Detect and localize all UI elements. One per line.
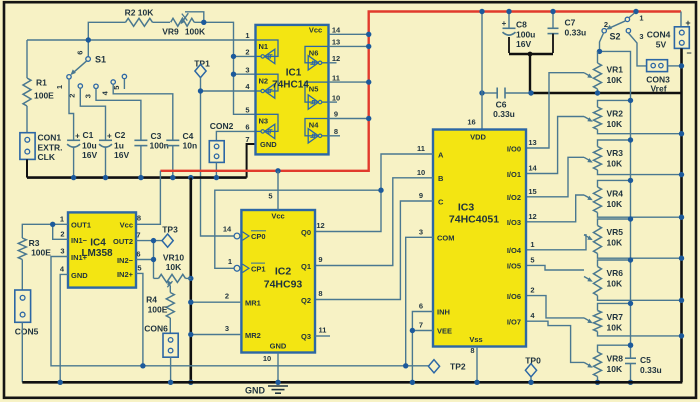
- wire IC1 pin 13 to +5V: [329, 45, 369, 47]
- junction VDD on red: [479, 9, 484, 14]
- svg-text:VR4: VR4: [607, 189, 624, 199]
- resistor R3: [18, 238, 26, 260]
- wire IC1 pin 12 stub: [329, 62, 337, 64]
- svg-text:15: 15: [528, 187, 536, 196]
- svg-text:Q3: Q3: [301, 332, 311, 341]
- capacitor C7: [552, 12, 554, 29]
- junction VR8 top on +V rail: [628, 343, 633, 348]
- VR4 wiper arrow: [584, 195, 590, 198]
- potentiometer VR2: [598, 100, 631, 107]
- wire IC1 pin 11 to +5V: [329, 81, 369, 83]
- svg-text:B: B: [438, 174, 444, 183]
- wire IC2 MR1 to gnd drop: [191, 301, 242, 303]
- connector CON5: [15, 290, 31, 322]
- test point TP2: [428, 360, 439, 373]
- inverter N1: [256, 40, 279, 56]
- svg-text:C3: C3: [151, 131, 162, 141]
- wire C1 to ground bus: [73, 147, 75, 178]
- node junction pin3: [231, 72, 236, 77]
- svg-text:IC1: IC1: [286, 68, 302, 79]
- svg-text:16V: 16V: [114, 150, 129, 160]
- svg-text:10K: 10K: [607, 323, 623, 333]
- svg-text:I/O4: I/O4: [507, 246, 522, 255]
- svg-text:6: 6: [419, 302, 423, 311]
- svg-text:Vref: Vref: [650, 84, 666, 94]
- junction MR1 on drop: [188, 300, 193, 305]
- svg-text:5: 5: [268, 192, 272, 201]
- svg-text:+: +: [502, 19, 507, 28]
- junction VR7 bottom on gnd rail: [679, 333, 684, 338]
- svg-text:74HC14: 74HC14: [272, 80, 309, 91]
- VR7 wiper arrow: [584, 318, 590, 321]
- svg-text:N4: N4: [309, 121, 319, 130]
- wire IC1 pin 8 stub: [329, 135, 341, 137]
- counter IC2 74HC93 body: [241, 210, 315, 353]
- wire IC1 pin 6 to CON2: [216, 131, 255, 140]
- wire IC3 I/O2 to VR3 wiper: [526, 157, 584, 197]
- junction pin11: [366, 79, 371, 84]
- svg-text:10K: 10K: [607, 199, 623, 209]
- VR1 wiper arrow: [584, 73, 590, 76]
- svg-text:MR1: MR1: [245, 299, 261, 308]
- svg-text:IC3: IC3: [458, 202, 475, 214]
- wire IC4 GND to ground bus: [60, 274, 68, 382]
- junction IC4 gnd on bus: [58, 380, 63, 385]
- junction INH/VEE: [410, 328, 415, 333]
- wire S1 contact 3 to C3: [96, 89, 141, 141]
- svg-text:IN2+: IN2+: [117, 270, 134, 279]
- junction C5/VR8 top on rail: [628, 343, 633, 348]
- svg-text:GND: GND: [245, 386, 266, 396]
- svg-text:GND: GND: [270, 342, 287, 351]
- svg-text:N3: N3: [259, 117, 269, 126]
- svg-text:+: +: [685, 18, 690, 28]
- svg-text:8: 8: [470, 346, 474, 355]
- svg-text:N5: N5: [309, 84, 319, 93]
- junction pin13: [366, 44, 371, 49]
- wire R4 to CON6: [169, 318, 171, 333]
- svg-text:7: 7: [419, 321, 423, 330]
- svg-text:10: 10: [332, 93, 340, 102]
- junction VR3 bottom on gnd rail: [679, 172, 684, 177]
- inverter N4: [305, 119, 328, 136]
- svg-text:1: 1: [228, 257, 232, 266]
- junction pin9: [366, 116, 371, 121]
- wire C2 to ground bus: [105, 147, 107, 178]
- svg-text:11: 11: [319, 326, 327, 335]
- S1 contact 3: [94, 84, 98, 88]
- svg-text:6: 6: [76, 51, 85, 55]
- wire IC2 GND to ground bus: [277, 353, 279, 383]
- svg-text:16V: 16V: [516, 39, 531, 49]
- junction C1-gnd: [71, 175, 76, 180]
- wire IC3 VEE to ground bus: [412, 330, 433, 332]
- svg-text:13: 13: [332, 38, 340, 47]
- svg-text:GND: GND: [71, 271, 88, 280]
- svg-text:Q2: Q2: [301, 296, 311, 305]
- svg-text:1: 1: [245, 31, 249, 40]
- svg-text:TP0: TP0: [525, 355, 541, 365]
- S1 contact 5: [122, 74, 126, 78]
- junction C6 right on black: [528, 90, 533, 95]
- svg-text:R2 10K: R2 10K: [125, 8, 155, 18]
- svg-text:1: 1: [55, 85, 64, 89]
- capacitor C8: [508, 12, 510, 29]
- potentiometer VR7: [598, 303, 631, 310]
- junction drop on bus: [188, 380, 193, 385]
- junction pin4/TP1: [198, 88, 203, 93]
- svg-text:C8: C8: [516, 20, 527, 30]
- svg-text:100E: 100E: [148, 305, 168, 315]
- S1 contact 4: [111, 80, 115, 84]
- svg-text:CON2: CON2: [210, 121, 234, 131]
- potentiometer VR8: [598, 345, 631, 352]
- black gnd drop wire (middle): [190, 178, 193, 383]
- svg-text:Vcc: Vcc: [309, 26, 322, 35]
- junction COM on line: [403, 363, 408, 368]
- svg-text:5: 5: [245, 106, 249, 115]
- svg-text:11: 11: [332, 73, 340, 82]
- junction OUT2/TP3: [151, 238, 156, 243]
- svg-text:MR2: MR2: [245, 331, 261, 340]
- inverter N2: [256, 74, 279, 91]
- wire IC3 B from IC2 Q1: [315, 178, 433, 266]
- wire IC1 pin 3: [234, 73, 256, 75]
- VR9 wiper bracket: [185, 12, 204, 22]
- junction VR7 top on +V rail: [628, 301, 633, 306]
- svg-text:12: 12: [316, 221, 324, 230]
- svg-text:C2: C2: [115, 130, 126, 140]
- wire IC2 Q3 stub: [315, 335, 330, 337]
- svg-text:IN1−: IN1−: [71, 236, 88, 245]
- junction OUT1/IN1-: [50, 222, 55, 227]
- svg-text:100n: 100n: [150, 141, 169, 151]
- svg-text:8: 8: [137, 214, 141, 223]
- connector CON1: [20, 133, 35, 160]
- S1 contact 2: [78, 84, 82, 88]
- wire IC3 Vss to ground bus: [476, 347, 478, 383]
- svg-text:3: 3: [419, 227, 423, 236]
- junction C3-gnd: [138, 175, 143, 180]
- wire IC3 I/O7 to VR8 wiper: [526, 321, 584, 362]
- wire IC4 IN1+ to buffer input line: [51, 257, 428, 366]
- svg-text:TP3: TP3: [162, 225, 178, 235]
- svg-text:S2: S2: [609, 32, 620, 42]
- junction gnd drop: [188, 175, 193, 180]
- switch S1: [87, 40, 89, 57]
- switch S2: [633, 9, 638, 14]
- wire TP1 down to IC2 CP0: [201, 78, 235, 236]
- wire CON2 to ground bus: [215, 162, 217, 177]
- wire IC4 IN2-: [136, 259, 154, 261]
- wire S2 contact 2 down to VR1 top: [600, 33, 604, 52]
- junction VR1 bottom on black: [595, 90, 600, 95]
- svg-text:1u: 1u: [114, 140, 124, 150]
- svg-text:10: 10: [263, 354, 271, 363]
- svg-text:N2: N2: [259, 76, 269, 85]
- svg-text:10K: 10K: [607, 159, 623, 169]
- wire S1 contact 5 stub: [123, 79, 125, 89]
- svg-text:5V: 5V: [656, 40, 667, 50]
- svg-text:10K: 10K: [607, 364, 623, 374]
- junction CON6 on bus: [168, 380, 173, 385]
- wire IC2 MR2 to gnd drop: [191, 334, 242, 336]
- node junction R2/VR9 bracket: [201, 20, 206, 25]
- node A junction dot at S1 pole: [86, 37, 91, 42]
- junction S2-VR1: [597, 49, 602, 54]
- svg-text:A: A: [438, 150, 444, 159]
- wire IC3 I/O0 to VR1 wiper: [526, 73, 584, 148]
- VR3 wiper arrow: [584, 157, 590, 160]
- svg-text:10u: 10u: [82, 140, 97, 150]
- svg-text:C7: C7: [565, 18, 576, 28]
- svg-text:CON6: CON6: [144, 324, 168, 334]
- junction VR5 bottom on gnd rail: [679, 256, 684, 261]
- svg-text:1: 1: [60, 215, 64, 224]
- svg-text:S1: S1: [95, 55, 106, 65]
- svg-text:8: 8: [334, 127, 338, 136]
- svg-text:VR7: VR7: [607, 312, 624, 322]
- wire CON5 to ground bus: [21, 322, 23, 382]
- wire S1 contact 2 to C2: [80, 88, 105, 140]
- junction VR10 on drop: [188, 276, 193, 281]
- svg-text:11: 11: [417, 144, 425, 153]
- svg-text:R1: R1: [36, 78, 47, 88]
- wire IC3 INH to VEE: [412, 312, 433, 331]
- node junction pin2: [231, 54, 236, 59]
- mux IC3 74HC4051 body: [433, 130, 526, 347]
- svg-text:12: 12: [528, 212, 536, 221]
- wire R2 to VR9: [153, 21, 171, 23]
- svg-text:3: 3: [639, 32, 643, 41]
- junction VR8 bottom on bus: [595, 380, 600, 385]
- VR10 wiper arrow from R4: [169, 286, 171, 293]
- svg-text:CP1: CP1: [251, 264, 266, 273]
- junction C2-gnd: [103, 175, 108, 180]
- capacitor C3: [134, 139, 147, 141]
- capacitor C2: [99, 139, 112, 141]
- wire IC3 I/O3 to VR4 wiper: [526, 195, 584, 222]
- VR5 wiper arrow: [584, 235, 590, 238]
- svg-text:INH: INH: [437, 308, 450, 317]
- svg-text:OUT1: OUT1: [71, 221, 91, 230]
- svg-text:VR2: VR2: [607, 109, 624, 119]
- wire IC3 I/O6 to VR7 wiper: [526, 296, 584, 318]
- svg-text:VR5: VR5: [607, 227, 624, 237]
- svg-text:IC4: IC4: [90, 238, 106, 249]
- svg-text:7: 7: [245, 135, 249, 144]
- resistor R4: [166, 293, 174, 319]
- svg-text:I/O1: I/O1: [507, 170, 521, 179]
- wire IC3 C from IC2 Q2: [315, 201, 433, 300]
- wire IC1 pin 10 stub: [329, 101, 338, 103]
- junction VR5 top on +V rail: [628, 216, 633, 221]
- junction CON3 on rail: [679, 63, 684, 68]
- wire IC1 pin 4 to TP1 line: [201, 90, 256, 92]
- wire IC3 I/O4 to VR5 wiper: [526, 235, 586, 250]
- svg-text:C: C: [438, 197, 444, 206]
- svg-text:CLK: CLK: [38, 152, 56, 162]
- junction VR6 top on +V rail: [628, 257, 633, 262]
- ground bus bottom (black): [22, 381, 682, 384]
- junction VR3 top on +V rail: [628, 137, 633, 142]
- svg-text:C5: C5: [640, 355, 651, 365]
- svg-text:I/O6: I/O6: [507, 292, 521, 301]
- svg-text:1: 1: [530, 240, 534, 249]
- wire R2 left lead down to node A: [88, 22, 125, 40]
- svg-text:10K: 10K: [607, 238, 623, 248]
- inverter N5: [305, 82, 328, 102]
- svg-text:N6: N6: [309, 49, 319, 58]
- svg-text:I/O7: I/O7: [507, 317, 521, 326]
- svg-text:CON4: CON4: [647, 30, 671, 40]
- svg-text:3: 3: [60, 247, 64, 256]
- junction IC2 Vcc on red wire: [275, 168, 280, 173]
- connector CON4: [680, 12, 682, 27]
- svg-text:2: 2: [604, 20, 608, 29]
- svg-text:I/O0: I/O0: [507, 144, 521, 153]
- svg-text:6: 6: [245, 123, 249, 132]
- svg-text:0.33u: 0.33u: [565, 28, 587, 38]
- wire VDD riser to red and IC3: [481, 12, 483, 130]
- svg-text:10: 10: [417, 168, 425, 177]
- svg-text:2: 2: [225, 292, 229, 301]
- junction pin14: [366, 32, 371, 37]
- svg-text:5: 5: [137, 264, 141, 273]
- op IC1 74HC14 body: [256, 25, 329, 155]
- svg-text:14: 14: [528, 164, 537, 173]
- svg-text:2: 2: [60, 230, 64, 239]
- svg-text:COM: COM: [437, 233, 455, 242]
- wire S1 contact 4 to C4: [113, 84, 173, 140]
- wire IC3 COM down to buffer input line: [406, 237, 433, 365]
- svg-text:+: +: [107, 131, 112, 140]
- svg-text:CON1: CON1: [38, 133, 62, 143]
- svg-text:OUT2: OUT2: [113, 237, 133, 246]
- svg-text:9: 9: [318, 255, 322, 264]
- svg-text:74HC4051: 74HC4051: [449, 214, 499, 226]
- wire IC2 Vcc riser to red +5V: [277, 171, 279, 210]
- svg-text:VR3: VR3: [607, 148, 624, 158]
- wire CON1 to ground bus: [26, 159, 28, 177]
- junction C5 bottom on bus: [628, 380, 633, 385]
- svg-text:13: 13: [528, 138, 536, 147]
- wire C4 to ground bus: [172, 146, 174, 178]
- VR8 wiper arrow: [584, 362, 590, 365]
- svg-text:10K: 10K: [607, 75, 623, 85]
- svg-text:+: +: [75, 131, 80, 140]
- svg-text:I/O5: I/O5: [507, 262, 521, 271]
- svg-text:C1: C1: [83, 130, 94, 140]
- svg-text:14: 14: [332, 26, 341, 35]
- junction VR2 bottom on gnd rail: [679, 131, 684, 136]
- wire IC4 OUT2 to TP3: [136, 240, 162, 242]
- resistor R1: [26, 40, 28, 78]
- junction VR4 bottom on gnd rail: [679, 215, 684, 220]
- junction C7 on red: [550, 9, 555, 14]
- svg-text:VDD: VDD: [470, 133, 486, 142]
- svg-text:12: 12: [332, 54, 340, 63]
- black wire C8/C7 junction to gnd rail: [509, 53, 553, 55]
- svg-text:74HC93: 74HC93: [264, 279, 303, 291]
- wire C3 to ground bus: [140, 146, 142, 178]
- svg-text:100u: 100u: [516, 30, 535, 40]
- potentiometer VR10: [154, 277, 159, 279]
- wire Q0 tap to CP1: [215, 190, 381, 268]
- junction Q0/CP1: [378, 188, 383, 193]
- inverter N6: [305, 46, 328, 62]
- svg-text:−: −: [686, 48, 691, 58]
- svg-text:R3: R3: [29, 238, 40, 248]
- svg-text:CP0: CP0: [251, 232, 266, 241]
- gnd rail right (black): [680, 48, 683, 382]
- svg-text:EXTR.: EXTR.: [38, 142, 63, 152]
- node A wire (S1 pole / R1 top / R2 left to IC1 pin 1): [27, 39, 256, 41]
- junction MR2 on drop: [188, 332, 193, 337]
- wire IC1 pin 9 to +5V: [329, 118, 369, 120]
- potentiometer VR1: [597, 51, 599, 63]
- svg-text:16V: 16V: [82, 150, 97, 160]
- wire IC1 pin 14 to +5V: [329, 33, 369, 35]
- svg-text:9: 9: [419, 191, 423, 200]
- potentiometer VR6: [598, 260, 631, 267]
- svg-text:7: 7: [136, 231, 140, 240]
- inverter N3: [256, 114, 279, 131]
- capacitor C6: [482, 92, 497, 94]
- svg-text:Vss: Vss: [469, 335, 482, 344]
- svg-text:6: 6: [136, 250, 140, 259]
- svg-text:2: 2: [530, 286, 534, 295]
- wire S2 contact 3 to CON3: [628, 33, 646, 66]
- junction INH/VEE on bus: [410, 380, 415, 385]
- wire CON6 to ground bus: [170, 357, 172, 382]
- svg-text:C4: C4: [183, 131, 194, 141]
- +5V red wire: [160, 12, 681, 171]
- wire IC3 I/O1 to VR2 wiper: [526, 117, 584, 174]
- svg-text:LM358: LM358: [81, 248, 113, 259]
- ground bus upper (black): [27, 176, 247, 179]
- S1 contact 1: [67, 75, 71, 79]
- junction VR6 bottom on gnd rail: [679, 298, 684, 303]
- svg-text:VR6: VR6: [607, 268, 624, 278]
- svg-text:10K: 10K: [607, 119, 623, 129]
- capacitor C4: [166, 139, 179, 141]
- opamp IC4 LM358 body: [68, 212, 136, 287]
- wire +5V to IC4 Vcc pin 8: [136, 171, 160, 225]
- wire IC1 pin 7 to ground bus: [247, 144, 256, 178]
- junction C6 left / VDD riser: [479, 90, 484, 95]
- junction IC3 Vss on bus: [474, 380, 479, 385]
- svg-text:R4: R4: [146, 295, 157, 305]
- svg-text:N1: N1: [259, 42, 269, 51]
- potentiometer VR5: [598, 219, 631, 226]
- capacitor C1: [67, 139, 80, 141]
- wire IC4 IN2+ to buffer input line: [136, 273, 143, 365]
- svg-text:TP2: TP2: [450, 362, 466, 372]
- wire IC3 I/O5 to VR6 wiper: [526, 265, 584, 270]
- svg-text:0.33u: 0.33u: [640, 365, 662, 375]
- wire S1 contact 1 to C1: [69, 79, 74, 140]
- svg-text:VEE: VEE: [437, 327, 452, 336]
- wire CON3 to gnd rail: [668, 65, 682, 67]
- svg-text:GND: GND: [260, 140, 277, 149]
- wire IC1 pin 2: [234, 55, 256, 57]
- wire R1 to CON1: [26, 106, 28, 133]
- potentiometer VR9: [171, 18, 195, 26]
- svg-text:10K: 10K: [607, 279, 623, 289]
- IC2 CP1 input bubble: [234, 265, 240, 271]
- svg-text:C6: C6: [496, 100, 507, 110]
